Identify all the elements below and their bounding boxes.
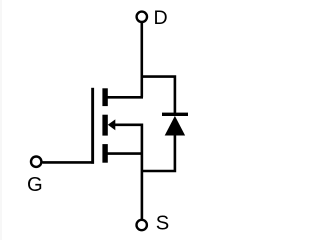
svg-text:G: G <box>27 174 43 196</box>
svg-text:D: D <box>154 7 168 29</box>
svg-text:S: S <box>156 213 169 235</box>
